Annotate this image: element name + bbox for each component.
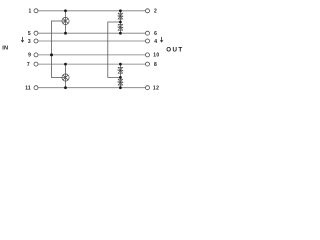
wire: GDT U1 centre stub — [52, 20, 66, 22]
wire line 3 (terminals 3-4, earth) — [38, 40, 146, 42]
wire: GDT U1 through lead — [65, 11, 67, 33]
TVS diode D2 — [118, 24, 123, 30]
svg-text:5: 5 — [28, 31, 31, 37]
junction dot L1/chain — [119, 9, 122, 12]
earth arrow left (at terminal 3) — [21, 37, 24, 43]
wire: TVS chain top vertical — [119, 11, 121, 33]
terminal circle 10 — [146, 53, 150, 57]
terminal circle 9 — [34, 53, 38, 57]
TVS diode D4 — [118, 79, 123, 85]
gas discharge tube U1 — [62, 17, 69, 24]
junction dot chain mid/bypass bottom — [119, 76, 122, 79]
svg-text:6: 6 — [154, 31, 157, 37]
svg-text:IN: IN — [2, 46, 8, 52]
junction dot L5/chain — [119, 63, 122, 66]
wire line 5 (terminals 7-8) — [38, 63, 146, 65]
svg-text:3: 3 — [28, 39, 31, 45]
wire: TVS chain bottom vertical — [119, 64, 121, 88]
terminal circle 5 — [34, 31, 38, 35]
TVS diode D3 — [118, 67, 123, 73]
terminal circle 2 — [146, 9, 150, 13]
junction dot L1/U1 — [64, 9, 67, 12]
wire: bypass vertical — [108, 22, 121, 77]
wire: GDT U2 centre stub — [52, 77, 66, 79]
terminal circle 3 — [34, 39, 38, 43]
TVS diode D1 — [118, 13, 123, 19]
terminal circle 12 — [146, 86, 150, 90]
svg-text:10: 10 — [153, 53, 159, 59]
junction dot L2/chain — [119, 32, 122, 35]
wire line 2 (terminals 5-6) — [38, 32, 146, 34]
junction dot bus/L4 — [50, 53, 53, 56]
terminal circle 11 — [34, 86, 38, 90]
junction dot chain mid/bypass — [119, 21, 122, 24]
earth arrow right (at terminal 4) — [160, 37, 163, 43]
junction dot L2/U1 — [64, 32, 67, 35]
svg-text:11: 11 — [25, 86, 31, 92]
terminal circle 8 — [146, 62, 150, 66]
terminal circle 4 — [146, 39, 150, 43]
svg-text:OUT: OUT — [166, 46, 183, 53]
wire line 4 (terminals 9-10) — [38, 54, 146, 56]
junction dot L6/U2 — [64, 86, 67, 89]
svg-text:2: 2 — [154, 9, 157, 15]
junction dot L5/U2 — [64, 63, 67, 66]
terminal circle 6 — [146, 31, 150, 35]
gas discharge tube U2 — [62, 74, 69, 81]
wire line 1 (terminals 1-2) — [38, 10, 146, 12]
svg-text:8: 8 — [154, 62, 157, 68]
wire: centre-electrode vertical bus — [51, 21, 53, 78]
svg-text:9: 9 — [28, 53, 31, 59]
svg-text:12: 12 — [153, 86, 159, 92]
svg-text:7: 7 — [27, 62, 30, 68]
junction dot L6/chain — [119, 86, 122, 89]
terminal circle 1 — [34, 9, 38, 13]
svg-text:1: 1 — [29, 9, 32, 15]
terminal circle 7 — [34, 62, 38, 66]
wire: GDT U2 through lead — [65, 64, 67, 88]
wire line 6 (terminals 11-12) — [38, 87, 146, 89]
svg-text:4: 4 — [154, 39, 157, 45]
